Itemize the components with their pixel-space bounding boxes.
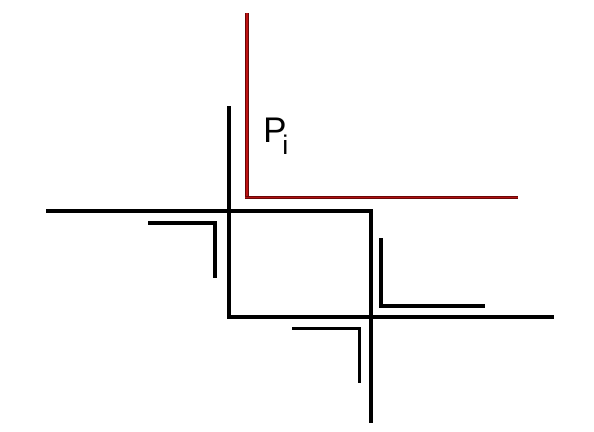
black vertical line D (x=371) [369, 209, 373, 423]
bracket F vertical segment [379, 238, 383, 307]
black vertical line A (left, x=227) [227, 106, 231, 319]
bracket G vertical segment [358, 327, 361, 383]
bracket F horizontal segment [379, 304, 485, 308]
red polyline P_i : vertical segment [245, 13, 249, 200]
bracket G horizontal segment [292, 327, 362, 330]
red polyline P_i : horizontal segment [245, 196, 518, 200]
bracket C vertical segment [213, 221, 217, 278]
label P_i [263, 113, 286, 148]
label subscript i [282, 132, 288, 159]
black long horizontal line B (y=209) [46, 209, 373, 213]
bracket C horizontal segment [148, 221, 217, 225]
black long horizontal line E (y=316) [227, 315, 554, 319]
